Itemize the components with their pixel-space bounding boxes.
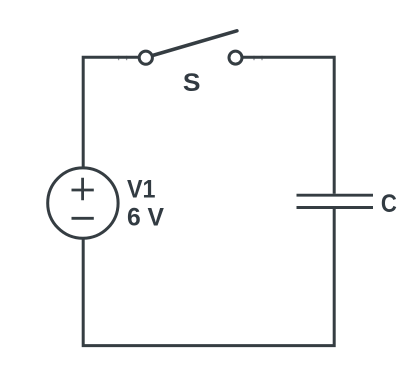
svg-text:6 V: 6 V (127, 204, 164, 232)
svg-text:S: S (183, 69, 201, 97)
svg-text:V1: V1 (127, 176, 156, 204)
svg-text:C: C (381, 190, 397, 218)
